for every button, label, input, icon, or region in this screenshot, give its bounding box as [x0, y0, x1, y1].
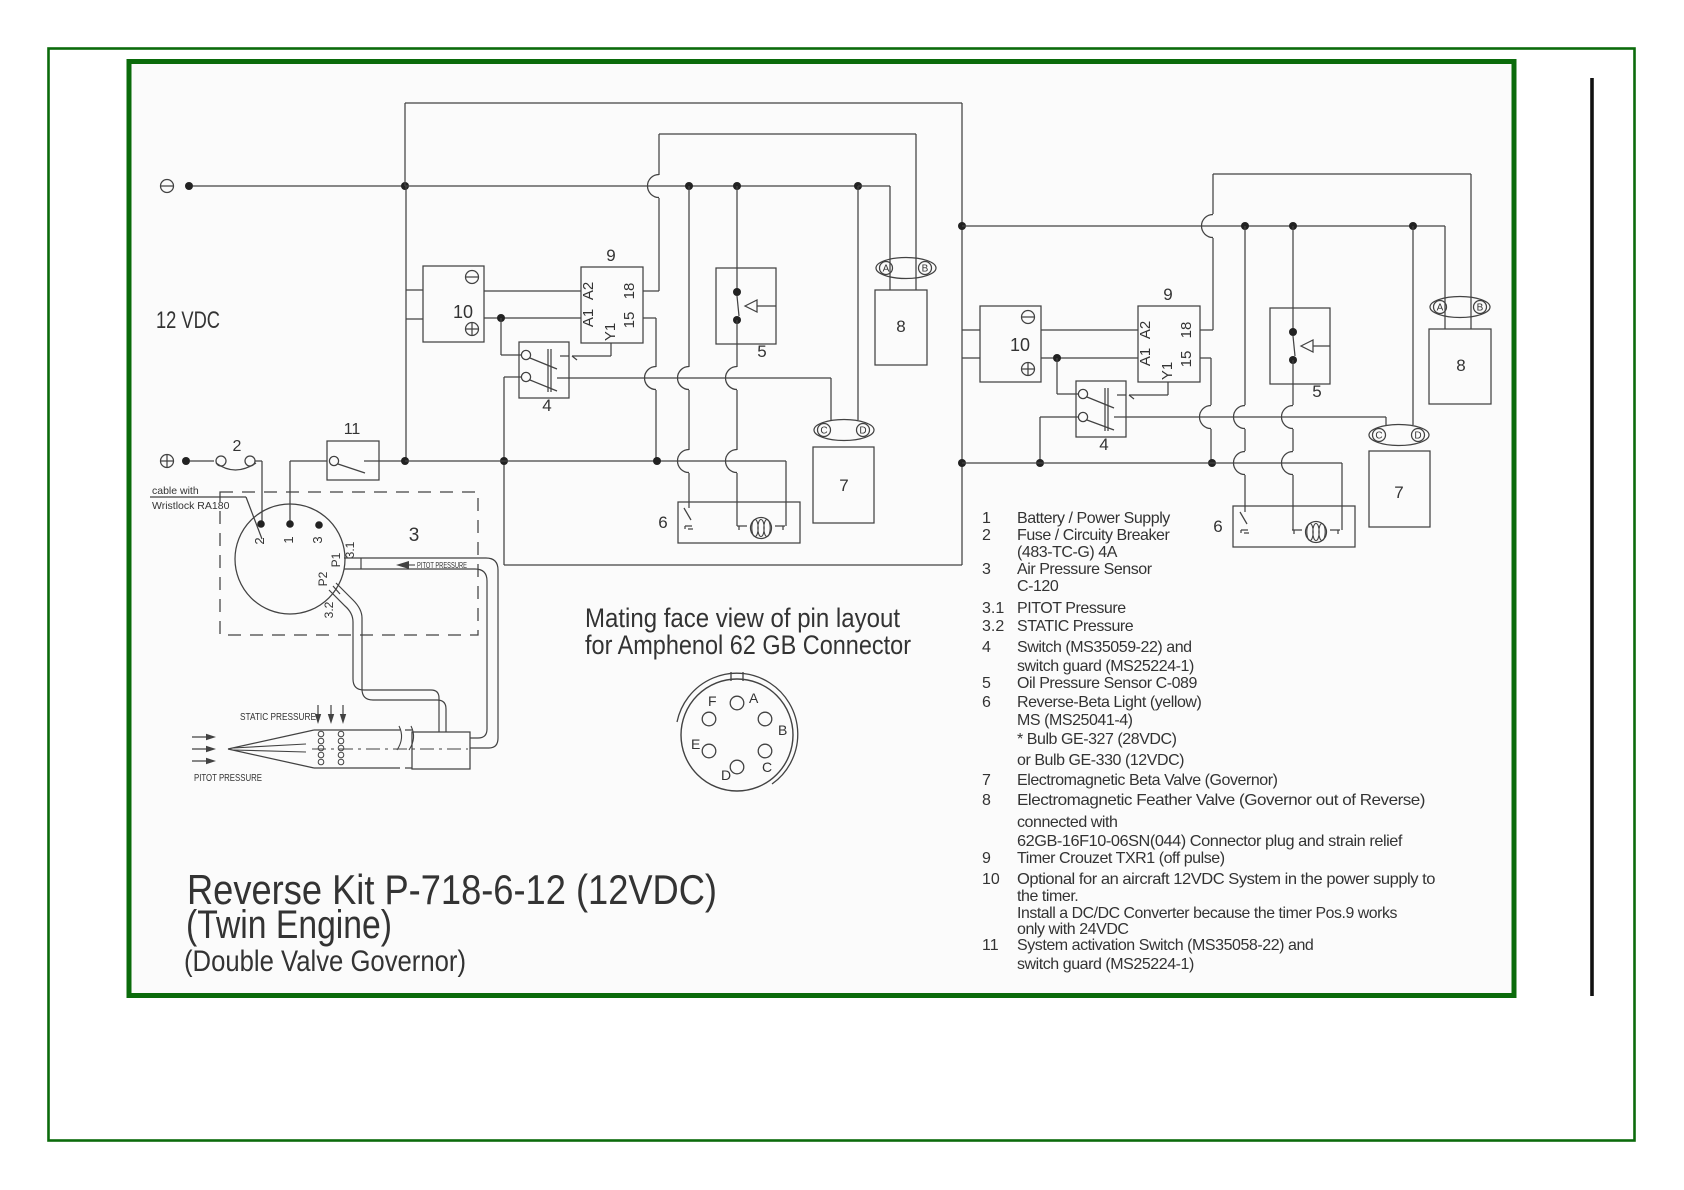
- svg-text:A2: A2: [1137, 321, 1154, 339]
- svg-text:PITOT PRESSURE: PITOT PRESSURE: [417, 561, 467, 570]
- svg-text:STATIC Pressure: STATIC Pressure: [1017, 618, 1134, 635]
- svg-text:A2: A2: [580, 282, 597, 300]
- svg-text:3: 3: [409, 525, 420, 546]
- svg-text:3.1: 3.1: [982, 600, 1004, 617]
- svg-text:C: C: [1375, 431, 1382, 442]
- svg-text:8: 8: [896, 317, 905, 336]
- svg-text:6: 6: [982, 694, 991, 711]
- svg-text:5: 5: [1312, 382, 1321, 401]
- svg-text:A: A: [883, 264, 890, 275]
- svg-text:9: 9: [1163, 285, 1172, 304]
- svg-text:Switch (MS35059-22) and: Switch (MS35059-22) and: [1017, 639, 1192, 656]
- svg-text:5: 5: [757, 342, 766, 361]
- svg-text:B: B: [1477, 303, 1484, 314]
- svg-text:PITOT Pressure: PITOT Pressure: [1017, 600, 1126, 617]
- svg-text:switch guard (MS25224-1): switch guard (MS25224-1): [1017, 956, 1194, 973]
- svg-text:P1: P1: [329, 552, 343, 567]
- svg-text:PITOT PRESSURE: PITOT PRESSURE: [194, 772, 262, 784]
- svg-text:Optional for an aircraft 12VDC: Optional for an aircraft 12VDC System in…: [1017, 871, 1436, 888]
- svg-text:Electromagnetic Feather Valve: Electromagnetic Feather Valve (Governor …: [1017, 792, 1425, 809]
- svg-text:P2: P2: [316, 571, 330, 586]
- svg-text:1: 1: [281, 536, 296, 543]
- svg-text:Battery / Power Supply: Battery / Power Supply: [1017, 510, 1170, 527]
- svg-text:Mating face view of pin layout: Mating face view of pin layout: [585, 603, 900, 633]
- svg-text:Electromagnetic Beta Valve (Go: Electromagnetic Beta Valve (Governor): [1017, 772, 1278, 789]
- svg-text:7: 7: [982, 772, 991, 789]
- svg-text:18: 18: [621, 283, 638, 300]
- svg-text:3.1: 3.1: [343, 541, 357, 558]
- svg-text:A: A: [1437, 303, 1444, 314]
- svg-text:15: 15: [621, 312, 638, 329]
- svg-text:4: 4: [542, 396, 551, 415]
- svg-text:STATIC PRESSURE: STATIC PRESSURE: [240, 711, 316, 723]
- svg-text:62GB-16F10-06SN(044) Connector: 62GB-16F10-06SN(044) Connector plug and …: [1017, 833, 1403, 850]
- svg-text:only with 24VDC: only with 24VDC: [1017, 921, 1129, 938]
- svg-text:Wristlock RA180: Wristlock RA180: [152, 500, 230, 512]
- svg-text:10: 10: [453, 302, 473, 322]
- svg-text:5: 5: [982, 675, 991, 692]
- svg-text:Fuse / Circuity Breaker: Fuse / Circuity Breaker: [1017, 527, 1170, 544]
- svg-text:Oil Pressure Sensor C-089: Oil Pressure Sensor C-089: [1017, 675, 1197, 692]
- svg-text:18: 18: [1178, 322, 1195, 339]
- svg-text:A1: A1: [1137, 348, 1154, 366]
- svg-text:7: 7: [839, 476, 848, 495]
- svg-text:switch guard (MS25224-1): switch guard (MS25224-1): [1017, 658, 1194, 675]
- svg-text:A: A: [749, 690, 759, 706]
- svg-text:4: 4: [982, 639, 991, 656]
- svg-text:F: F: [708, 693, 717, 709]
- svg-text:Install a DC/DC Converter beca: Install a DC/DC Converter because the ti…: [1017, 905, 1397, 922]
- svg-text:MS (MS25041-4): MS (MS25041-4): [1017, 712, 1133, 729]
- svg-text:1: 1: [982, 510, 991, 527]
- svg-text:12 VDC: 12 VDC: [156, 307, 220, 334]
- svg-text:C-120: C-120: [1017, 578, 1059, 595]
- svg-text:cable with: cable with: [152, 485, 199, 497]
- svg-text:10: 10: [1010, 335, 1030, 355]
- svg-text:D: D: [721, 767, 731, 783]
- svg-text:15: 15: [1178, 351, 1195, 368]
- svg-text:3.2: 3.2: [322, 601, 336, 618]
- svg-text:2: 2: [982, 527, 991, 544]
- svg-text:7: 7: [1394, 483, 1403, 502]
- svg-text:(Twin Engine): (Twin Engine): [186, 903, 392, 947]
- svg-text:6: 6: [658, 513, 667, 532]
- svg-text:2: 2: [233, 438, 242, 455]
- svg-text:3.2: 3.2: [982, 618, 1004, 635]
- svg-text:3: 3: [982, 561, 991, 578]
- svg-text:Reverse-Beta Light (yellow): Reverse-Beta Light (yellow): [1017, 694, 1201, 711]
- svg-text:(483-TC-G) 4A: (483-TC-G) 4A: [1017, 544, 1118, 561]
- svg-text:4: 4: [1099, 435, 1108, 454]
- svg-text:D: D: [859, 426, 866, 437]
- svg-text:C: C: [820, 426, 827, 437]
- svg-text:2: 2: [252, 537, 267, 544]
- svg-text:10: 10: [982, 871, 1000, 888]
- svg-text:D: D: [1414, 431, 1421, 442]
- svg-text:11: 11: [982, 937, 999, 954]
- svg-text:8: 8: [1456, 356, 1465, 375]
- svg-text:6: 6: [1213, 517, 1222, 536]
- svg-text:Air Pressure Sensor: Air Pressure Sensor: [1017, 561, 1153, 578]
- svg-text:* Bulb GE-327 (28VDC): * Bulb GE-327 (28VDC): [1017, 731, 1177, 748]
- svg-text:B: B: [778, 722, 787, 738]
- svg-text:for Amphenol 62 GB Connector: for Amphenol 62 GB Connector: [585, 630, 911, 660]
- svg-text:connected with: connected with: [1017, 814, 1117, 831]
- svg-text:B: B: [922, 264, 929, 275]
- svg-text:Timer Crouzet TXR1 (off pulse): Timer Crouzet TXR1 (off pulse): [1017, 850, 1225, 867]
- svg-text:C: C: [762, 759, 772, 775]
- svg-text:System activation Switch (MS35: System activation Switch (MS35058-22) an…: [1017, 937, 1313, 954]
- svg-text:or Bulb GE-330 (12VDC): or Bulb GE-330 (12VDC): [1017, 752, 1184, 769]
- svg-text:9: 9: [606, 246, 615, 265]
- svg-text:11: 11: [344, 421, 361, 438]
- svg-text:the timer.: the timer.: [1017, 888, 1078, 905]
- svg-text:8: 8: [982, 792, 991, 809]
- svg-text:E: E: [691, 736, 700, 752]
- svg-text:Y1: Y1: [1159, 362, 1176, 380]
- svg-text:9: 9: [982, 850, 991, 867]
- svg-text:A1: A1: [580, 309, 597, 327]
- svg-text:Y1: Y1: [602, 323, 619, 341]
- svg-text:3: 3: [310, 536, 325, 543]
- svg-text:(Double Valve Governor): (Double Valve Governor): [184, 945, 466, 978]
